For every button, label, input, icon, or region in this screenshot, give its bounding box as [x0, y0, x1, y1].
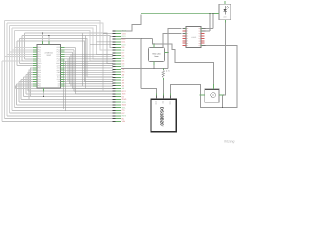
- sensor U3 pin VDD: [169, 94, 171, 100]
- wire: [16, 87, 114, 89]
- svg-text:RST: RST: [122, 90, 127, 93]
- wire: [22, 36, 113, 48]
- wire: [6, 23, 8, 116]
- IC U1 top pin 1: [42, 41, 44, 44]
- module M1 right pin: [165, 52, 169, 54]
- IC U1 left pin 1: [33, 47, 37, 49]
- header J1 pin 1 tick: [113, 30, 116, 32]
- IC U2 right pin 4: [201, 35, 205, 37]
- wire: [162, 78, 164, 94]
- header J1 pin 25: [116, 96, 121, 98]
- header J1 pin 14 tick: [113, 66, 116, 68]
- wire: [64, 69, 113, 71]
- IC U2 body: [186, 27, 201, 48]
- header J1 pin 32: [116, 115, 121, 117]
- wire: [209, 14, 211, 32]
- wire: [20, 39, 114, 77]
- wire: [8, 26, 10, 113]
- wire: [24, 33, 26, 59]
- header J1 pin 15 tick: [113, 68, 116, 70]
- IC U2 right pin 3: [201, 32, 205, 34]
- resistor R1 lead top: [162, 69, 164, 71]
- IC U2 left pin 7: [183, 42, 187, 44]
- header J1 pin 2: [116, 33, 121, 35]
- wire: [12, 109, 113, 111]
- wire: [12, 28, 113, 59]
- header J1 pin 23 tick: [113, 90, 116, 92]
- wire: [212, 14, 214, 29]
- svg-text:Q6: Q6: [199, 43, 201, 45]
- wire: [25, 75, 27, 94]
- wire: [21, 98, 113, 100]
- wire: [64, 49, 74, 51]
- header J1 pin 27 tick: [113, 101, 116, 103]
- wire: [14, 107, 113, 109]
- IC U2 right pin 6: [201, 40, 205, 42]
- wire: [20, 79, 22, 99]
- svg-text:Q3: Q3: [199, 35, 201, 37]
- IC U1 right pin 14: [61, 76, 65, 78]
- wire: [64, 60, 113, 62]
- wire: [14, 31, 113, 62]
- wire: [31, 68, 34, 97]
- wire: [64, 78, 113, 80]
- svg-text:VIN: VIN: [122, 120, 126, 123]
- IC U1 left pin 2: [33, 49, 37, 51]
- svg-text:DC: DC: [122, 112, 126, 115]
- IC U1 left pin 7: [33, 60, 37, 62]
- wire: [141, 13, 214, 15]
- wire: [2, 60, 33, 62]
- svg-text:PB4: PB4: [38, 85, 41, 88]
- header J1 pin 20: [116, 82, 121, 84]
- wire: [1, 61, 3, 121]
- IC U1 right pin 7: [61, 60, 65, 62]
- wire: [9, 26, 113, 55]
- wire: [97, 41, 114, 43]
- IC U2 left pin 1: [183, 28, 187, 30]
- wire: [90, 44, 113, 46]
- wire: [26, 74, 33, 76]
- header J1 pin 23: [116, 90, 121, 92]
- buzzer B1 right pin: [219, 94, 223, 96]
- svg-text:SCK: SCK: [122, 101, 127, 104]
- wire: [43, 88, 45, 97]
- header J1 pin 34 tick: [113, 120, 116, 122]
- wire: [4, 21, 6, 119]
- wire: [73, 50, 75, 91]
- svg-text:SDA: SDA: [122, 104, 127, 107]
- IC U1 right pin 10: [61, 67, 65, 69]
- header J1 pin 17: [116, 74, 121, 76]
- header J1 pin 20 tick: [113, 82, 116, 84]
- wire: [64, 65, 113, 67]
- header J1 pin 12 tick: [113, 60, 116, 62]
- wire: [21, 78, 33, 80]
- wire: [16, 83, 33, 85]
- buzzer B1 left pin: [200, 94, 205, 96]
- header J1 pin 5: [116, 41, 121, 43]
- IC U1 left pin 17: [33, 83, 37, 85]
- IC U2 right pin 1: [201, 28, 206, 30]
- wire: [19, 101, 113, 103]
- junction: [141, 38, 142, 39]
- wire: [7, 115, 113, 117]
- svg-text:Q7: Q7: [199, 45, 201, 47]
- header J1 pin 21: [116, 85, 121, 87]
- wire: [64, 76, 113, 78]
- wire: [64, 85, 113, 87]
- svg-text:P3: P3: [187, 35, 189, 37]
- IC U2 left pin 4: [183, 35, 187, 37]
- IC U1 right pin 1: [61, 47, 65, 49]
- sensor U3 pin GND tip: [155, 94, 157, 96]
- IC U1 left pin 10: [33, 67, 37, 69]
- module M1 bottom pin: [153, 62, 155, 65]
- header J1 pin 10 tick: [113, 55, 116, 57]
- IC U1 body: [37, 45, 61, 89]
- junction: [167, 52, 168, 53]
- wire: [24, 96, 114, 98]
- header J1 pin 11: [116, 57, 121, 59]
- wire: [19, 81, 33, 83]
- header J1 pin 15: [116, 68, 121, 70]
- wire: [75, 48, 77, 94]
- wire: [16, 104, 113, 106]
- IC U1 left pin 14: [33, 76, 37, 78]
- header J1 pin 29 tick: [113, 107, 116, 109]
- wire: [64, 51, 72, 53]
- wire: [64, 67, 113, 69]
- IC U1 left pin 16: [33, 81, 37, 83]
- header J1 pin 33: [116, 118, 121, 120]
- header J1 pin 2 tick: [113, 33, 116, 35]
- junction: [43, 96, 44, 97]
- wire: [64, 71, 113, 73]
- IC U2 left pin 8: [183, 45, 187, 47]
- header J1 pin 6 tick: [113, 44, 116, 46]
- wire: [15, 84, 17, 105]
- svg-text:P2: P2: [187, 33, 189, 35]
- wire: [48, 36, 50, 45]
- header J1 pin 16 tick: [113, 71, 116, 73]
- header J1 pin 14: [116, 66, 121, 68]
- IC U1 left pin 5: [33, 56, 37, 58]
- wire: [76, 93, 114, 95]
- svg-text:GND: GND: [122, 98, 127, 101]
- svg-text:GND: GND: [122, 30, 127, 33]
- wire: [2, 120, 113, 122]
- wire: [23, 77, 25, 97]
- wire: [73, 88, 114, 90]
- sensor U3 DS18B20 body: [151, 99, 176, 132]
- IC U1 right pin 12: [61, 71, 65, 73]
- junction: [48, 35, 49, 36]
- sensor U3 pin GND: [155, 94, 157, 100]
- IC U2 left pin 3: [183, 32, 187, 34]
- wire: [64, 58, 113, 60]
- IC U2 right pin 5: [201, 37, 205, 39]
- wire: [5, 21, 114, 50]
- header J1 pin 17 tick: [113, 74, 116, 76]
- header J1 pin 13: [116, 63, 121, 65]
- LED D1 body: [219, 4, 231, 20]
- header J1 pin 24 tick: [113, 93, 116, 95]
- header J1 pin 19 tick: [113, 79, 116, 81]
- wire: [153, 39, 214, 84]
- header J1 pin 13 tick: [113, 63, 116, 65]
- wire: [74, 90, 113, 92]
- wire: [18, 82, 20, 103]
- header J1 pin 21 tick: [113, 85, 116, 87]
- wire: [206, 30, 211, 32]
- LED D1 left pin: [214, 13, 219, 15]
- header J1 pin 30 tick: [113, 109, 116, 111]
- svg-text:Q0: Q0: [199, 28, 201, 30]
- junction: [42, 33, 43, 34]
- wire: [69, 57, 71, 84]
- svg-text:Q2: Q2: [199, 33, 201, 35]
- wire: [70, 54, 72, 86]
- wire: [29, 70, 33, 99]
- wire: [85, 36, 87, 89]
- IC U1 bottom pin: [43, 88, 45, 92]
- wire: [64, 53, 113, 55]
- header J1 pin 19: [116, 79, 121, 81]
- svg-text:P7: P7: [187, 45, 189, 47]
- wire: [63, 59, 65, 109]
- wire: [17, 41, 113, 82]
- IC U1 right pin 5: [61, 56, 65, 58]
- svg-text:Q1: Q1: [199, 31, 201, 33]
- wire: [110, 35, 113, 37]
- svg-text:5mm: 5mm: [154, 55, 159, 58]
- IC U1 right pin 11: [61, 69, 65, 71]
- header J1 pin 4: [116, 38, 121, 40]
- IC U1 right pin 13: [61, 74, 65, 76]
- LED D1 bottom pin: [224, 20, 226, 23]
- header J1 pin 34: [116, 120, 121, 122]
- wire: [72, 52, 74, 88]
- header J1 pin 25 tick: [113, 96, 116, 98]
- IC U2 left pin 6: [183, 40, 187, 42]
- wire: [223, 23, 225, 96]
- svg-text:P1: P1: [187, 31, 189, 33]
- header J1 pin 8 tick: [113, 49, 116, 51]
- wire: [121, 15, 141, 31]
- wire: [9, 112, 113, 114]
- header J1 pin 30: [116, 109, 121, 111]
- IC U2 right pin 2: [201, 30, 206, 32]
- wire: [64, 81, 113, 83]
- IC U1 right pin 16: [61, 81, 65, 83]
- svg-text:Q5: Q5: [199, 40, 201, 42]
- resistor R1 lead bottom: [162, 78, 164, 80]
- header J1 pin 26 tick: [113, 98, 116, 100]
- wire: [163, 34, 182, 48]
- wire: [9, 51, 33, 53]
- wire: [19, 39, 21, 64]
- svg-text:328P: 328P: [46, 54, 51, 57]
- module M1 top pin: [153, 44, 155, 47]
- buzzer B1 symbol: [211, 93, 216, 98]
- IC U1 right pin 15: [61, 78, 65, 80]
- header J1 pin 6: [116, 44, 121, 46]
- wire: [7, 23, 113, 91]
- IC U2 right pin 8: [201, 45, 206, 47]
- IC U1 right pin 18: [61, 85, 65, 87]
- IC U1 right pin 6: [61, 58, 65, 60]
- IC U1 left pin 3: [33, 51, 37, 53]
- buzzer B1 top edge: [205, 88, 219, 90]
- wire: [65, 61, 67, 111]
- wire: [121, 68, 168, 70]
- junction: [222, 107, 223, 108]
- IC U1 right pin 9: [61, 65, 65, 67]
- wire: [14, 47, 33, 49]
- IC U1 left pin 18: [33, 85, 37, 87]
- buzzer B1 body: [205, 89, 219, 102]
- IC U2 right pin 7: [201, 42, 205, 44]
- junction: [200, 94, 201, 95]
- svg-text:4.7k: 4.7k: [166, 70, 170, 73]
- svg-text:P0: P0: [187, 28, 189, 30]
- sensor U3 pin VDD tip: [169, 94, 171, 96]
- svg-text:RES: RES: [122, 115, 127, 118]
- wire: [24, 76, 34, 78]
- LED D1 top pin: [224, 1, 226, 4]
- module M1 body: [149, 48, 165, 62]
- wire: [5, 56, 34, 58]
- header J1 pin 18: [116, 76, 121, 78]
- header J1 pin 5 tick: [113, 41, 116, 43]
- IC U1 left pin 8: [33, 62, 37, 64]
- svg-text:Q4: Q4: [199, 38, 201, 40]
- junction: [163, 68, 164, 69]
- wire: [140, 39, 142, 89]
- wire: [64, 56, 113, 58]
- junction: [153, 44, 154, 45]
- wire: [141, 89, 156, 94]
- wire: [22, 60, 33, 62]
- IC U2 left pin 2: [183, 30, 187, 32]
- wire: [17, 65, 33, 67]
- IC U1 right pin 8: [61, 62, 65, 64]
- header J1 pin 31: [116, 112, 121, 114]
- wire: [5, 118, 114, 120]
- header J1 pin 28: [116, 104, 121, 106]
- header J1 pin 11 tick: [113, 57, 116, 59]
- wire: [162, 69, 164, 71]
- wire: [64, 74, 113, 76]
- LED D1 symbol: [223, 9, 227, 12]
- junction: [212, 13, 213, 14]
- IC U1 right pin 3: [61, 51, 65, 53]
- wire: [64, 62, 113, 64]
- header J1 pin 4 tick: [113, 38, 116, 40]
- wire: [25, 33, 114, 63]
- header J1 pin 3 tick: [113, 35, 116, 37]
- svg-text:L293D: L293D: [191, 36, 197, 39]
- buzzer B1 top pin: [213, 84, 215, 89]
- IC U1 top pin 2: [48, 41, 50, 44]
- header J1 pin 12: [116, 60, 121, 62]
- wire: [82, 33, 84, 86]
- wire: [11, 28, 13, 110]
- header J1 pin 3: [116, 35, 121, 37]
- header J1 pin 28 tick: [113, 104, 116, 106]
- IC U1 right pin 17: [61, 83, 65, 85]
- header J1 pin 7: [116, 46, 121, 48]
- wire: [26, 93, 113, 95]
- header J1 pin 9 tick: [113, 52, 116, 54]
- wire: [168, 29, 182, 69]
- header J1 pin 31 tick: [113, 112, 116, 114]
- wire: [103, 33, 113, 35]
- resistor R1: [162, 70, 164, 77]
- IC U1 left pin 6: [33, 58, 37, 60]
- wire: [16, 41, 18, 66]
- wire: [221, 95, 223, 108]
- wire: [153, 65, 155, 69]
- IC U2 left pin 5: [183, 37, 187, 39]
- wire: [7, 53, 33, 55]
- IC U1 right pin 2: [61, 49, 65, 51]
- wire: [20, 62, 34, 64]
- svg-text:P4: P4: [187, 38, 189, 40]
- junction: [223, 94, 224, 95]
- header J1 pin 7 tick: [113, 46, 116, 48]
- header J1 pin 16: [116, 71, 121, 73]
- svg-text:DS18B20: DS18B20: [160, 107, 165, 126]
- header J1 pin 29: [116, 107, 121, 109]
- IC U1 left pin 15: [33, 78, 37, 80]
- header J1 pin 8: [116, 49, 121, 51]
- junction: [209, 13, 210, 14]
- IC U1 left pin 11: [33, 69, 37, 71]
- header J1 pin 18 tick: [113, 76, 116, 78]
- wire: [64, 83, 113, 85]
- wire: [16, 86, 34, 88]
- wire: [28, 72, 33, 91]
- header J1 pin 33 tick: [113, 118, 116, 120]
- sensor U3 pin DQ: [162, 94, 164, 100]
- wire: [28, 90, 113, 92]
- header J1 pin 26: [116, 98, 121, 100]
- wire: [12, 49, 33, 51]
- header J1 pin 32 tick: [113, 115, 116, 117]
- IC U1 left pin 9: [33, 65, 37, 67]
- wire: [13, 31, 15, 108]
- header J1 pin 27: [116, 101, 121, 103]
- header J1 pin 9: [116, 52, 121, 54]
- wire: [170, 46, 237, 108]
- svg-text:VCC: VCC: [122, 32, 127, 35]
- header J1 pin 24: [116, 93, 121, 95]
- wire: [206, 28, 214, 30]
- header J1 pin 22 tick: [113, 87, 116, 89]
- header J1 pin 10: [116, 55, 121, 57]
- svg-text:P6: P6: [187, 43, 189, 45]
- wire: [67, 59, 69, 81]
- wire: [42, 33, 44, 44]
- IC U1 left pin 13: [33, 74, 37, 76]
- junction: [153, 68, 154, 69]
- header J1 pin 1: [116, 30, 121, 32]
- IC U1 left pin 12: [33, 71, 37, 73]
- header J1 pin 22: [116, 87, 121, 89]
- IC U1 right pin 4: [61, 53, 65, 55]
